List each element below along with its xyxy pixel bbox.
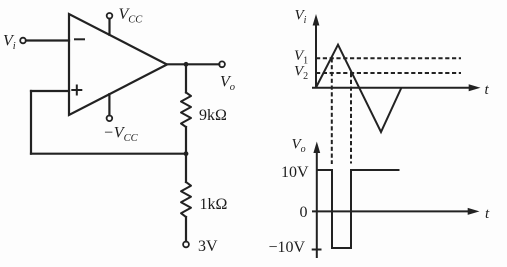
wire 1k resistor to 3V terminal (185, 217, 187, 242)
wire feedback vertical (30, 91, 32, 154)
axis t bottom horizontal (312, 210, 469, 212)
tick -10V (312, 249, 322, 251)
op-amp U1 (69, 14, 167, 115)
resistor 9k (181, 93, 191, 128)
dashed threshold line V1 (316, 57, 461, 59)
node feedback junction (184, 151, 189, 156)
terminal Vo (219, 61, 225, 67)
wire op-amp output (167, 63, 219, 65)
svg-text:Vo: Vo (220, 74, 235, 94)
dashed vertical t1 (331, 58, 333, 164)
svg-text:1kΩ: 1kΩ (200, 196, 228, 213)
wire Vi to inverting input (26, 39, 69, 41)
svg-text:−VCC: −VCC (103, 125, 139, 145)
waveform Vo square wave (317, 170, 400, 248)
terminal Vi (20, 38, 26, 44)
svg-text:Vi: Vi (295, 8, 307, 27)
dashed threshold line V2 (316, 72, 461, 74)
svg-text:Vo: Vo (292, 137, 306, 156)
terminal VCC (107, 13, 113, 19)
wire feedback to plus input (31, 90, 69, 92)
axis t top arrowhead (469, 84, 481, 91)
terminal 3V (183, 242, 189, 248)
svg-text:9kΩ: 9kΩ (199, 107, 227, 124)
terminal -VCC (107, 116, 113, 122)
svg-text:0: 0 (300, 204, 308, 221)
wire 9k resistor to node (185, 127, 187, 154)
wire feedback horizontal (31, 153, 186, 155)
node output junction (184, 62, 189, 67)
axis t bottom arrowhead (468, 208, 480, 215)
op-amp plus sign (72, 86, 81, 95)
svg-text:t: t (485, 82, 490, 98)
wire VCC to op-amp (108, 19, 110, 35)
resistor 1k (181, 182, 191, 217)
svg-text:VCC: VCC (119, 6, 144, 26)
axis t top horizontal (312, 87, 470, 89)
wire node to 1k resistor (185, 154, 187, 182)
axis Vi arrowhead (313, 14, 320, 26)
wire output node to 9k resistor (185, 64, 187, 92)
axis Vo arrowhead (313, 142, 320, 154)
waveform Vi triangle wave (316, 45, 402, 132)
op-amp minus sign (75, 38, 84, 40)
svg-text:10V: 10V (281, 164, 309, 181)
svg-text:Vi: Vi (3, 33, 16, 53)
svg-text:t: t (485, 206, 490, 222)
svg-text:3V: 3V (198, 238, 218, 255)
dashed vertical t2 (350, 73, 352, 164)
svg-text:−10V: −10V (269, 239, 306, 256)
wire -VCC to op-amp (108, 94, 110, 115)
axis Vo vertical (316, 152, 318, 258)
axis Vi vertical (315, 24, 317, 88)
